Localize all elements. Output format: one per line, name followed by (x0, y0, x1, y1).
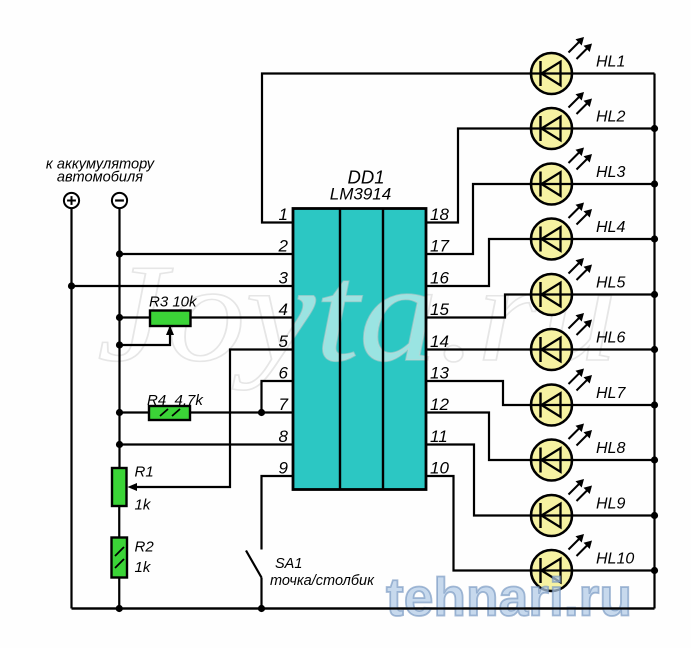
wire HL8 anode to right bus (572, 459, 655, 461)
IC DD1 LM3914 body fill (293, 209, 426, 490)
label R2 (135, 539, 155, 556)
LED HL1 (531, 37, 592, 94)
svg-text:HL3: HL3 (596, 164, 625, 181)
svg-text:9: 9 (279, 459, 289, 478)
svg-text:автомобиля: автомобиля (57, 170, 143, 186)
wire R4 right lead to pin7 (190, 411, 293, 413)
svg-text:11: 11 (430, 427, 448, 446)
wire R2 bottom to bottom bus (118, 578, 120, 609)
svg-text:3: 3 (279, 269, 289, 288)
label HL10 (596, 551, 634, 568)
svg-text:R1: R1 (135, 464, 154, 481)
svg-text:HL5: HL5 (596, 275, 625, 292)
wire pin3 to + bus (72, 285, 294, 287)
svg-text:2: 2 (278, 237, 289, 256)
svg-text:12: 12 (430, 395, 449, 414)
svg-text:tehnari.ru: tehnari.ru (386, 568, 632, 628)
wire HL7 anode to right bus (572, 404, 655, 406)
terminal - (to battery) (112, 193, 127, 208)
resistor R4 4,7k body (149, 406, 190, 420)
label HL5 (596, 275, 625, 292)
svg-text:HL2: HL2 (596, 109, 625, 126)
wire pin12 to HL8 cathode (426, 413, 531, 461)
svg-text:14: 14 (430, 332, 449, 351)
LED HL10 (531, 534, 592, 591)
terminal + (to battery) (64, 193, 79, 208)
LED HL8 (531, 424, 592, 481)
wire pin10 to HL10 cathode (426, 476, 531, 571)
svg-text:18: 18 (430, 205, 449, 224)
wire R4 left lead to - bus (120, 411, 150, 413)
LED HL9 (531, 479, 592, 536)
wire HL6 anode to right bus (572, 348, 655, 350)
label R4 4,7k (147, 392, 204, 409)
pin numbers 10-18 (right) (430, 205, 449, 478)
LED HL6 (531, 313, 592, 370)
switch SA1 blade (246, 551, 262, 578)
wire pin5 to R1 wiper arrow (128, 350, 294, 492)
svg-text:R2: R2 (135, 539, 155, 556)
svg-text:HL6: HL6 (596, 330, 625, 347)
wire pin1 to HL1 cathode (top loop) (262, 74, 531, 223)
svg-text:6: 6 (279, 364, 289, 383)
wire - terminal down to R1 top (118, 208, 120, 468)
label HL3 (596, 164, 625, 181)
wire R3 wiper to - bus (120, 326, 175, 346)
wire HL9 anode to right bus (572, 514, 655, 516)
wire HL10 anode to right bus (572, 569, 655, 571)
svg-text:16: 16 (430, 269, 449, 288)
wire SA1 bottom lead to bottom bus (260, 578, 262, 609)
svg-text:13: 13 (430, 364, 449, 383)
wire bottom +12V bus (horizontal) (72, 607, 655, 609)
svg-text:LM3914: LM3914 (330, 185, 391, 204)
wire pin2 to - bus (120, 253, 294, 255)
svg-text:SA1: SA1 (275, 556, 302, 572)
pin numbers 1-9 (left) (278, 205, 289, 478)
svg-text:7: 7 (279, 395, 289, 414)
svg-text:точка/столбик: точка/столбик (270, 573, 375, 589)
resistor R3 10k (trimmer body) (150, 311, 191, 327)
label HL2 (596, 109, 625, 126)
LED HL7 (531, 369, 592, 426)
resistor R1 1k body (112, 468, 127, 506)
wire HL3 anode to right bus (572, 183, 655, 185)
label SA1 mode dot/bar (270, 573, 375, 589)
label LM3914 (330, 185, 391, 204)
LED HL5 (531, 258, 592, 315)
IC DD1 LM3914 outline (293, 209, 426, 490)
svg-text:HL4: HL4 (596, 219, 625, 236)
wire pin17 to HL3 cathode (426, 184, 531, 254)
label HL6 (596, 330, 625, 347)
svg-text:17: 17 (430, 237, 449, 256)
LED HL2 (531, 92, 592, 149)
label R1 (135, 464, 154, 481)
svg-text:8: 8 (279, 427, 289, 446)
svg-text:R4 4,7k: R4 4,7k (147, 392, 204, 409)
wire pin8 to - bus (120, 443, 294, 445)
svg-text:4: 4 (279, 300, 288, 319)
label to car battery (46, 157, 156, 186)
watermark tehnari.ru (386, 568, 632, 628)
svg-text:HL8: HL8 (596, 440, 625, 457)
label DD1 (347, 167, 384, 188)
wire + terminal down the left bus (70, 208, 72, 609)
wire pin15 to HL5 cathode (426, 295, 531, 318)
wire pin18 to HL2 cathode (426, 129, 531, 223)
wire HL2 anode to right bus (572, 127, 655, 129)
wire HL1 anode to right bus (572, 72, 655, 74)
LED HL4 (531, 203, 592, 260)
wire pin9 down to SA1 (262, 476, 294, 550)
label HL9 (596, 496, 625, 513)
resistor R2 1k body (112, 538, 128, 578)
svg-text:10: 10 (430, 459, 449, 478)
label HL8 (596, 440, 625, 457)
label R2 value 1k (135, 559, 152, 576)
wire bottom +12V bus (over watermark) (72, 607, 655, 609)
wire pin6 down to pin7 net (262, 381, 294, 413)
wire R3 left lead to - bus (120, 316, 151, 318)
wire R1 bottom to R2 top (118, 506, 120, 538)
svg-text:1k: 1k (135, 497, 152, 514)
wire pin13 to HL7 cathode (426, 381, 531, 405)
svg-text:15: 15 (430, 300, 449, 319)
wire HL5 anode to right bus (572, 293, 655, 295)
label SA1 (275, 556, 302, 572)
wire R3 right lead to pin4 (191, 316, 294, 318)
svg-text:1: 1 (279, 205, 288, 224)
svg-text:HL9: HL9 (596, 496, 625, 513)
wire HL4 anode to right bus (572, 238, 655, 240)
LED HL3 (531, 148, 592, 205)
wire right +12V bus (vertical) (653, 74, 655, 609)
svg-text:1k: 1k (135, 559, 152, 576)
svg-text:HL7: HL7 (596, 385, 626, 402)
svg-text:R3 10k: R3 10k (149, 294, 198, 311)
label R3 10k (149, 294, 198, 311)
label HL1 (596, 54, 625, 71)
watermark Joyta.ru (97, 236, 617, 391)
label HL7 (596, 385, 626, 402)
svg-text:HL1: HL1 (596, 54, 625, 71)
svg-text:5: 5 (279, 332, 289, 351)
svg-text:HL10: HL10 (596, 551, 634, 568)
label HL4 (596, 219, 625, 236)
wire pin14 to HL6 cathode (426, 348, 531, 350)
label R1 value 1k (135, 497, 152, 514)
wire pin16 to HL4 cathode (426, 239, 531, 286)
wire pin11 to HL9 cathode (426, 445, 531, 516)
